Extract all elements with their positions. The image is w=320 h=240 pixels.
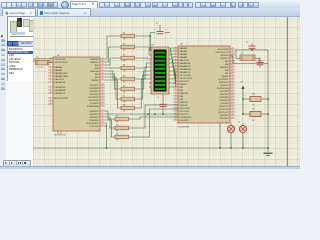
svg-text:9: 9 — [175, 68, 176, 70]
svg-text:33: 33 — [102, 79, 104, 81]
svg-text:14: 14 — [50, 61, 52, 63]
resistor R7 — [105, 75, 151, 104]
svg-text:RB7/PGD: RB7/PGD — [90, 59, 99, 61]
left panel — [6, 16, 33, 166]
svg-text:U3: U3 — [180, 44, 182, 46]
svg-text:16: 16 — [50, 103, 52, 105]
svg-text:1: 1 — [50, 97, 51, 99]
capacitor C3 — [257, 58, 264, 68]
svg-text:10k: 10k — [123, 50, 126, 52]
svg-text:21: 21 — [102, 113, 104, 115]
svg-text:RB0/INT: RB0/INT — [180, 84, 188, 86]
svg-text:10k: 10k — [123, 102, 126, 104]
svg-text:RC3/SCK/SCL: RC3/SCK/SCL — [86, 123, 98, 125]
U3 right pins — [230, 49, 235, 118]
svg-text:RE2/AN7/CS: RE2/AN7/CS — [180, 71, 192, 74]
svg-text:RD3/PSP3: RD3/PSP3 — [220, 115, 229, 117]
svg-text:RC1/T1OSI: RC1/T1OSI — [180, 111, 190, 113]
crystal X1 — [34, 57, 53, 70]
svg-text:24: 24 — [232, 96, 234, 98]
svg-text:RB7/PGD: RB7/PGD — [180, 105, 189, 107]
svg-text:13: 13 — [50, 58, 52, 60]
svg-text:RB4: RB4 — [95, 68, 99, 70]
svg-text:34: 34 — [102, 76, 104, 78]
svg-text:RB2: RB2 — [180, 90, 184, 92]
svg-text:29: 29 — [232, 81, 234, 83]
svg-text:RB4: RB4 — [180, 96, 184, 98]
svg-text:RC3/SCK: RC3/SCK — [221, 103, 230, 105]
svg-text:18: 18 — [175, 95, 177, 97]
svg-text:RC0/T1OSO: RC0/T1OSO — [218, 112, 229, 114]
svg-text:34: 34 — [232, 66, 234, 68]
wire U3 top right — [230, 50, 268, 64]
svg-text:13: 13 — [175, 80, 177, 82]
resistor R3 — [105, 54, 151, 65]
svg-text:RC1/T1OSI: RC1/T1OSI — [219, 109, 229, 111]
svg-text:RB3/PGM: RB3/PGM — [180, 93, 189, 95]
svg-text:RC7/RX/DT: RC7/RX/DT — [89, 97, 100, 99]
svg-text:3: 3 — [175, 50, 176, 52]
svg-text:32: 32 — [232, 72, 234, 74]
svg-text:25: 25 — [232, 93, 234, 95]
svg-text:10k: 10k — [123, 92, 126, 94]
svg-text:RA3/AN3/VREF+: RA3/AN3/VREF+ — [55, 75, 69, 78]
svg-text:RB0/INT: RB0/INT — [91, 80, 99, 82]
resistor R9 — [105, 111, 178, 124]
svg-text:6: 6 — [175, 59, 176, 61]
svg-text:RB0/INT: RB0/INT — [221, 76, 229, 78]
svg-text:RC5/SDO: RC5/SDO — [220, 85, 229, 87]
svg-text:18: 18 — [102, 122, 104, 124]
svg-text:R4: R4 — [123, 64, 125, 66]
svg-text:R6: R6 — [123, 85, 125, 87]
svg-text:MCLR/VPP/THV: MCLR/VPP/THV — [55, 98, 69, 100]
svg-text:OSC1/CLKIN: OSC1/CLKIN — [218, 49, 230, 51]
svg-text:27: 27 — [102, 93, 104, 95]
svg-text:24: 24 — [175, 113, 177, 115]
svg-text:10k: 10k — [123, 71, 126, 73]
resistor R8 — [105, 79, 151, 113]
svg-text:R5: R5 — [123, 75, 125, 77]
svg-text:RE1/AN6/WR: RE1/AN6/WR — [55, 89, 67, 92]
svg-text:RE0/AN5/RD: RE0/AN5/RD — [55, 86, 67, 89]
wire U1 to U3 data line — [105, 113, 178, 115]
svg-text:C1: C1 — [156, 23, 158, 25]
svg-text:470: 470 — [252, 105, 255, 107]
U3 pin numbers — [175, 47, 234, 121]
svg-text:RD7/PSP7: RD7/PSP7 — [220, 91, 229, 93]
svg-text:RD4/PSP4: RD4/PSP4 — [220, 100, 229, 102]
svg-text:20: 20 — [232, 108, 234, 110]
svg-text:RA1/AN1: RA1/AN1 — [180, 50, 188, 53]
svg-text:RB2: RB2 — [225, 70, 229, 72]
svg-text:10: 10 — [50, 92, 52, 94]
svg-text:RB4: RB4 — [225, 64, 229, 66]
svg-text:15: 15 — [50, 100, 52, 102]
svg-text:RC6/TX/CK: RC6/TX/CK — [219, 82, 229, 84]
svg-text:PIC16F877A: PIC16F877A — [54, 134, 66, 137]
svg-text:2: 2 — [50, 66, 51, 68]
svg-text:10k: 10k — [123, 111, 126, 113]
svg-text:30: 30 — [232, 78, 234, 80]
svg-text:40: 40 — [232, 48, 234, 50]
svg-text:PIC16F877A: PIC16F877A — [178, 126, 190, 129]
right rail wire — [267, 50, 269, 149]
resistor R10 — [105, 105, 178, 133]
svg-text:11: 11 — [175, 74, 177, 76]
svg-text:RE0/AN5/RD: RE0/AN5/RD — [180, 65, 192, 68]
U1 left pins — [48, 59, 53, 104]
resistor R13 — [243, 109, 268, 123]
svg-text:37: 37 — [102, 67, 104, 69]
svg-text:RD7/PSP7: RD7/PSP7 — [90, 85, 99, 87]
svg-text:RC7/RX/DT: RC7/RX/DT — [219, 79, 230, 81]
svg-text:26: 26 — [175, 119, 177, 121]
svg-text:4: 4 — [175, 53, 176, 55]
power terminal +5V — [240, 82, 245, 115]
capacitor C2 — [246, 42, 256, 51]
svg-text:RB3/PGM: RB3/PGM — [90, 71, 99, 73]
svg-text:RC4/SDI/SDA: RC4/SDI/SDA — [87, 105, 99, 108]
svg-text:RB6/PGC: RB6/PGC — [180, 102, 189, 104]
resistor R4 — [105, 63, 151, 73]
capacitor C1 — [149, 23, 170, 51]
svg-text:RD0/PSP0: RD0/PSP0 — [90, 120, 99, 122]
tab bar — [0, 8, 300, 16]
svg-text:RA2/AN2/VREF-: RA2/AN2/VREF- — [55, 72, 69, 75]
svg-text:21: 21 — [232, 105, 234, 107]
svg-text:15: 15 — [175, 86, 177, 88]
U1 pin labels — [55, 59, 100, 128]
svg-text:R12: R12 — [252, 94, 255, 96]
bottom rail wire — [33, 147, 268, 149]
svg-text:33: 33 — [232, 69, 234, 71]
schematic canvas — [33, 16, 300, 167]
svg-text:RB5: RB5 — [225, 61, 229, 63]
svg-text:X2: X2 — [241, 53, 243, 55]
svg-text:RA3/AN3: RA3/AN3 — [180, 56, 188, 59]
svg-text:2: 2 — [175, 47, 176, 49]
wires U2 to U3 — [169, 48, 178, 87]
svg-text:RC4/SDI/SDA: RC4/SDI/SDA — [217, 87, 229, 90]
svg-text:RA0/AN0: RA0/AN0 — [55, 66, 63, 69]
lamp L1 — [226, 122, 235, 149]
svg-text:17: 17 — [175, 92, 177, 94]
simulation control buttons — [3, 160, 29, 165]
wire U3 ground — [219, 123, 221, 149]
sheet border — [286, 17, 289, 167]
svg-text:OSC1/CLKIN: OSC1/CLKIN — [55, 59, 67, 61]
lamp L2 — [238, 122, 247, 149]
svg-text:30: 30 — [102, 84, 104, 86]
svg-text:470: 470 — [252, 120, 255, 122]
svg-text:MCLR/VPP: MCLR/VPP — [180, 81, 190, 83]
resistor R5 — [105, 67, 151, 84]
svg-text:26: 26 — [232, 90, 234, 92]
U2 unused pins — [149, 83, 151, 87]
svg-text:RD5/PSP5: RD5/PSP5 — [90, 91, 99, 93]
wire U1 to bottom rail — [58, 123, 107, 148]
svg-text:9: 9 — [50, 89, 51, 91]
capacitor C4 — [157, 94, 167, 115]
svg-text:RA5/AN4/SS: RA5/AN4/SS — [180, 62, 191, 65]
svg-text:16: 16 — [175, 89, 177, 91]
svg-text:25: 25 — [175, 116, 177, 118]
svg-text:38: 38 — [232, 54, 234, 56]
svg-text:RA2/AN2: RA2/AN2 — [180, 53, 188, 56]
svg-text:5: 5 — [50, 75, 51, 77]
U3 left pins — [173, 48, 178, 120]
svg-text:26: 26 — [102, 96, 104, 98]
crystal X2 — [236, 50, 263, 64]
svg-text:RD5/PSP5: RD5/PSP5 — [220, 97, 229, 99]
svg-text:19: 19 — [232, 111, 234, 113]
svg-text:35: 35 — [102, 73, 104, 75]
svg-text:39: 39 — [102, 61, 104, 63]
svg-text:10: 10 — [175, 71, 177, 73]
svg-text:23: 23 — [175, 110, 177, 112]
svg-text:38: 38 — [102, 64, 104, 66]
svg-text:R9: R9 — [116, 115, 118, 117]
svg-text:RB5: RB5 — [95, 65, 99, 67]
U1 right pins — [100, 59, 105, 126]
svg-text:L1: L1 — [226, 122, 228, 124]
svg-text:RC6/TX/CK: RC6/TX/CK — [89, 100, 99, 102]
svg-text:29: 29 — [102, 87, 104, 89]
svg-text:7: 7 — [50, 81, 51, 83]
svg-text:OSC2/CLKOUT: OSC2/CLKOUT — [180, 78, 194, 80]
svg-text:31: 31 — [232, 75, 234, 77]
svg-text:17: 17 — [102, 125, 104, 127]
svg-text:R10: R10 — [116, 124, 119, 126]
svg-text:RC5/SDO: RC5/SDO — [90, 103, 99, 105]
resistor R2 — [105, 43, 151, 62]
svg-text:19: 19 — [175, 98, 177, 100]
svg-text:RD3/PSP3: RD3/PSP3 — [90, 111, 99, 113]
svg-text:RD1/PSP1: RD1/PSP1 — [90, 117, 99, 119]
svg-text:10k: 10k — [123, 61, 126, 63]
svg-text:L2: L2 — [238, 122, 240, 124]
svg-text:R7: R7 — [123, 95, 125, 97]
svg-text:10k: 10k — [123, 39, 126, 41]
svg-text:RC0/T1OSO: RC0/T1OSO — [180, 108, 191, 110]
svg-text:RD2/PSP2: RD2/PSP2 — [90, 114, 99, 116]
svg-text:20: 20 — [175, 101, 177, 103]
svg-text:28: 28 — [102, 90, 104, 92]
svg-text:RA4/T0CKI: RA4/T0CKI — [180, 59, 190, 62]
svg-text:RC2/CCP1: RC2/CCP1 — [180, 114, 189, 116]
svg-text:22: 22 — [175, 107, 177, 109]
svg-text:RB1: RB1 — [95, 77, 99, 79]
svg-text:6: 6 — [50, 78, 51, 80]
device list — [7, 46, 36, 83]
svg-text:27: 27 — [232, 87, 234, 89]
svg-text:RE2/AN7/CS: RE2/AN7/CS — [55, 92, 67, 95]
svg-text:RB1: RB1 — [225, 73, 229, 75]
svg-text:R1: R1 — [123, 32, 125, 34]
svg-text:RE1/AN6/WR: RE1/AN6/WR — [180, 68, 192, 71]
resistor R1 — [105, 32, 151, 59]
microcontroller U1 PIC16F877A — [53, 55, 100, 137]
svg-text:10k: 10k — [123, 82, 126, 84]
svg-text:10k: 10k — [116, 131, 119, 133]
svg-text:RC2/CCP1: RC2/CCP1 — [89, 126, 98, 128]
svg-text:+5V: +5V — [240, 82, 244, 84]
svg-text:RD0/PSP0: RD0/PSP0 — [180, 120, 189, 122]
svg-text:CRYSTAL: CRYSTAL — [36, 66, 44, 69]
svg-text:C4: C4 — [157, 97, 159, 99]
svg-text:RB5: RB5 — [180, 99, 184, 101]
svg-text:20: 20 — [102, 116, 104, 118]
svg-text:22: 22 — [102, 110, 104, 112]
svg-text:10k: 10k — [116, 140, 119, 142]
svg-text:18: 18 — [232, 114, 234, 116]
svg-text:RD6/PSP6: RD6/PSP6 — [90, 88, 99, 90]
svg-text:RA0/AN0: RA0/AN0 — [180, 47, 188, 50]
microcontroller U3 PIC16F877A — [178, 44, 230, 129]
svg-text:RB1: RB1 — [180, 87, 184, 89]
svg-text:R13: R13 — [252, 109, 255, 111]
svg-text:RB6/PGC: RB6/PGC — [220, 58, 229, 60]
svg-text:U2: U2 — [151, 45, 153, 47]
svg-text:RC2/CCP1: RC2/CCP1 — [219, 106, 228, 108]
svg-text:5: 5 — [175, 56, 176, 58]
svg-text:19: 19 — [102, 119, 104, 121]
svg-text:RC3/SCK/SCL: RC3/SCK/SCL — [180, 117, 192, 119]
overview preview window — [7, 16, 36, 42]
top toolbar — [0, 0, 300, 9]
bottom window edge — [0, 166, 300, 169]
svg-text:OSC1/CLKIN: OSC1/CLKIN — [180, 75, 192, 77]
svg-text:R2: R2 — [123, 43, 125, 45]
svg-text:RB7/PGD: RB7/PGD — [220, 55, 229, 57]
svg-text:40: 40 — [102, 58, 104, 60]
U3 pin labels — [180, 47, 230, 122]
svg-text:RB2: RB2 — [95, 74, 99, 76]
svg-text:RA1/AN1: RA1/AN1 — [55, 69, 63, 72]
svg-text:RD2/PSP2: RD2/PSP2 — [220, 118, 229, 120]
resistor R11 — [105, 109, 178, 142]
svg-text:22: 22 — [232, 102, 234, 104]
svg-text:25: 25 — [102, 99, 104, 101]
ground — [264, 148, 273, 155]
resistor R6 — [105, 71, 151, 94]
svg-text:17: 17 — [232, 117, 234, 119]
svg-text:OSC2/CLKOUT: OSC2/CLKOUT — [215, 52, 229, 54]
svg-text:C2: C2 — [246, 42, 248, 44]
svg-text:RD6/PSP6: RD6/PSP6 — [220, 94, 229, 96]
svg-text:RD4/PSP4: RD4/PSP4 — [90, 94, 99, 96]
svg-text:14: 14 — [175, 83, 177, 85]
U1 pin numbers — [50, 58, 104, 127]
svg-text:8: 8 — [50, 86, 51, 88]
left mode toolbar — [0, 16, 7, 166]
P/L buttons and devices header — [7, 41, 34, 46]
LED bargraph U2 — [151, 45, 169, 95]
svg-text:OSC2/CLKOUT: OSC2/CLKOUT — [55, 62, 69, 64]
svg-text:X1: X1 — [36, 57, 38, 59]
svg-text:RB6/PGC: RB6/PGC — [90, 62, 99, 64]
resistor R12 — [243, 94, 268, 108]
svg-text:RA4/T0CKI: RA4/T0CKI — [55, 78, 65, 81]
svg-text:23: 23 — [102, 105, 104, 107]
svg-text:4: 4 — [50, 72, 51, 74]
svg-text:28: 28 — [232, 84, 234, 86]
svg-text:10k: 10k — [116, 122, 119, 124]
svg-text:3: 3 — [50, 69, 51, 71]
svg-text:R3: R3 — [123, 54, 125, 56]
svg-text:7: 7 — [175, 62, 176, 64]
svg-text:R8: R8 — [123, 104, 125, 106]
svg-text:RB3/PGM: RB3/PGM — [220, 67, 229, 69]
svg-text:12: 12 — [175, 77, 177, 79]
svg-text:R11: R11 — [116, 133, 119, 135]
svg-text:24: 24 — [102, 102, 104, 104]
svg-text:23: 23 — [232, 99, 234, 101]
svg-text:36: 36 — [102, 70, 104, 72]
svg-text:RA5/AN4/SS: RA5/AN4/SS — [55, 81, 66, 84]
svg-text:39: 39 — [232, 51, 234, 53]
svg-text:8: 8 — [175, 65, 176, 67]
bargraph green segments — [155, 52, 165, 90]
svg-text:21: 21 — [175, 104, 177, 106]
